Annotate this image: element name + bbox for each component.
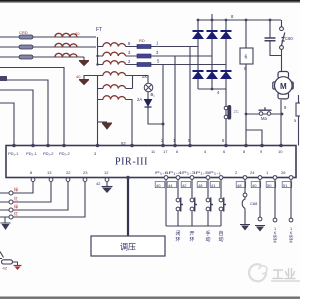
svg-text:4Z: 4Z [3, 266, 8, 271]
svg-text:50: 50 [267, 183, 272, 188]
svg-text:绿: 绿 [14, 186, 18, 192]
svg-text:40: 40 [156, 183, 161, 188]
svg-text:48: 48 [198, 183, 203, 188]
svg-text:B₁: B₁ [151, 92, 156, 97]
svg-text:PIR-III: PIR-III [115, 157, 148, 168]
svg-text:绿: 绿 [14, 203, 18, 209]
svg-text:48: 48 [237, 183, 242, 188]
svg-text:42: 42 [96, 181, 101, 186]
svg-text:22: 22 [66, 170, 71, 175]
svg-text:42: 42 [182, 183, 187, 188]
svg-text:PD₁-2: PD₁-2 [43, 151, 54, 156]
svg-text:10: 10 [278, 149, 283, 154]
svg-text:26: 26 [281, 170, 286, 175]
svg-text:24: 24 [250, 170, 255, 175]
svg-text:手动: 手动 [205, 230, 210, 243]
svg-text:2C: 2C [234, 109, 239, 114]
svg-text:23: 23 [83, 170, 88, 175]
svg-text:13: 13 [47, 170, 52, 175]
svg-text:FT: FT [96, 27, 102, 33]
svg-text:52: 52 [121, 141, 126, 146]
svg-text:PD₂-2: PD₂-2 [59, 151, 70, 156]
svg-text:红: 红 [14, 210, 18, 216]
svg-text:P₁-6P₁-4P₁-3P₁-5P₁-₁: P₁-6P₁-4P₁-3P₁-5P₁-₁ [155, 170, 222, 175]
svg-text:开环: 开环 [189, 231, 194, 243]
svg-text:自动: 自动 [218, 230, 223, 243]
svg-text:PD₂-1: PD₂-1 [26, 151, 37, 156]
svg-text:51: 51 [283, 183, 288, 188]
svg-text:RD: RD [139, 38, 145, 43]
svg-text:闭环: 闭环 [175, 230, 180, 243]
svg-text:40: 40 [252, 183, 257, 188]
svg-text:12: 12 [104, 170, 109, 175]
svg-text:调压: 调压 [120, 243, 136, 252]
svg-text:2A: 2A [137, 97, 142, 102]
svg-text:红: 红 [14, 195, 18, 201]
svg-text:44: 44 [168, 183, 173, 188]
svg-text:PD₁-1: PD₁-1 [8, 151, 19, 156]
svg-text:C68: C68 [250, 201, 258, 206]
svg-text:M: M [280, 82, 287, 91]
svg-text:40: 40 [76, 74, 81, 79]
svg-text:17: 17 [163, 149, 168, 154]
svg-text:CRD: CRD [19, 30, 28, 35]
svg-text:60: 60 [75, 31, 80, 36]
svg-text:6: 6 [245, 55, 248, 61]
svg-text:工业: 工业 [272, 267, 296, 282]
svg-text:Ma: Ma [261, 116, 267, 121]
svg-text:C60: C60 [285, 36, 293, 41]
svg-text:ZK: ZK [142, 74, 148, 79]
svg-text:41: 41 [211, 183, 216, 188]
